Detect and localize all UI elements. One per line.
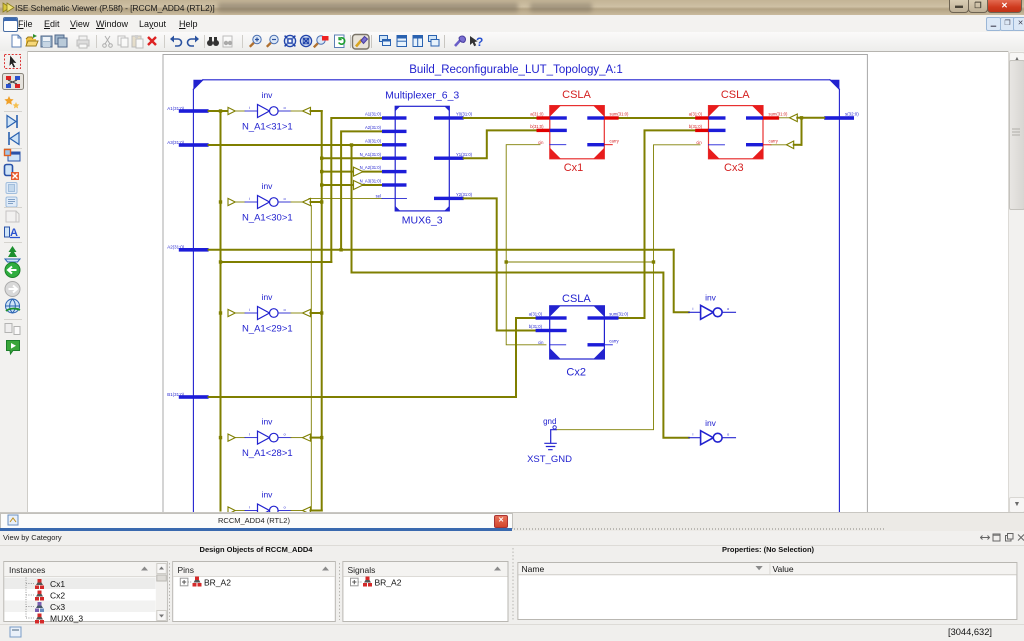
MUX pin Y0 (434, 112, 473, 120)
wire N_A2 tap (322, 171, 382, 173)
junction inv2 output (320, 200, 323, 203)
svg-text:sum(31:0): sum(31:0) (609, 312, 628, 317)
svg-text:a(31:0): a(31:0) (689, 112, 703, 117)
Cx1 pin carry (587, 138, 619, 146)
binoculars doc greyed (223, 36, 232, 47)
Cx3 pin b (689, 124, 726, 132)
svg-text:Cx1: Cx1 (564, 162, 584, 174)
zoom full (284, 35, 295, 46)
Cx3 pin sum (746, 112, 788, 120)
stars (4, 96, 19, 109)
Cx1 pin sum (587, 112, 629, 120)
svg-text:o: o (727, 306, 730, 311)
Cx3 pin a (689, 112, 726, 120)
svg-text:cin: cin (696, 140, 702, 145)
port A1(31:0) (167, 106, 208, 113)
svg-text:inv: inv (262, 90, 274, 100)
junction inv4 input (219, 436, 222, 439)
svg-text:MUX6_3: MUX6_3 (50, 614, 83, 624)
inverter right top (689, 293, 736, 320)
svg-text:i: i (249, 505, 250, 510)
svg-text:BR_A2: BR_A2 (375, 578, 402, 588)
grey fwd (5, 282, 20, 297)
Cx2 pin carry (588, 338, 620, 346)
gnd symbol XST_GND (527, 417, 572, 465)
zoom flag (314, 36, 329, 48)
wire Cx1 sum to Cx3 a (619, 117, 695, 119)
buffer arrow N_A3 (354, 181, 364, 190)
wire A3 branch to lower right inverter (352, 145, 689, 438)
svg-text:s(32:0): s(32:0) (845, 111, 859, 116)
svg-text:sel: sel (376, 194, 381, 199)
wire Cx2 sum to Cx3 b (619, 130, 696, 318)
svg-text:i: i (249, 432, 250, 437)
dotted separators (170, 548, 514, 620)
svg-text:A2(31:0): A2(31:0) (167, 245, 184, 250)
pale doc 2 (6, 197, 17, 207)
svg-text:?: ? (476, 35, 483, 49)
svg-text:N_A1<30>1: N_A1<30>1 (242, 213, 293, 224)
junction A2 riser (339, 248, 342, 251)
svg-text:B1(31:0): B1(31:0) (167, 392, 184, 397)
svg-text:sum(31:0): sum(31:0) (769, 112, 788, 117)
tree icon (5, 246, 20, 262)
redo (188, 36, 200, 47)
undo (170, 36, 182, 47)
svg-text:N_A1<31>1: N_A1<31>1 (242, 122, 293, 133)
svg-text:i: i (249, 105, 250, 110)
wire carry up link (801, 118, 803, 145)
svg-text:Pins: Pins (178, 565, 195, 575)
wire sel thin (309, 197, 382, 199)
greyed doc (6, 211, 19, 222)
port A3(31:0) (167, 140, 208, 147)
MUX pin sel (376, 194, 407, 199)
svg-text:i: i (249, 307, 250, 312)
pale doc 1 (6, 183, 17, 194)
Cx1 pin cin (538, 140, 566, 145)
svg-text:CSLA: CSLA (562, 89, 591, 101)
Cx2 pin cin (538, 340, 566, 345)
svg-text:A1(31:0): A1(31:0) (167, 106, 184, 111)
delete red X (148, 37, 156, 45)
block Build_Reconfigurable_LUT_Topology_A:1 (193, 80, 839, 512)
svg-text:o: o (284, 105, 287, 110)
svg-text:N_A3(31:0): N_A3(31:0) (360, 179, 382, 184)
wire N_A1 vertical (321, 111, 323, 511)
wire N_A1 tap (322, 157, 382, 159)
wire A2 branch to upper right inverter (674, 250, 689, 312)
pressed tool button (353, 35, 370, 50)
win tile v (413, 36, 423, 47)
svg-text:XST_GND: XST_GND (527, 454, 572, 465)
svg-text:i: i (693, 431, 694, 436)
MUX pin A1 (365, 112, 407, 120)
svg-text:N_A2(31:0): N_A2(31:0) (360, 165, 382, 170)
D + red X (5, 165, 20, 181)
Pins panel (173, 562, 336, 622)
inverter right bottom (689, 418, 736, 445)
win tile h (397, 36, 407, 47)
Signals panel (343, 562, 508, 622)
svg-text:A2(31:0): A2(31:0) (365, 125, 382, 130)
window + orange (5, 150, 21, 162)
multiplexer MUX6_3 (395, 106, 449, 211)
copy (greyed) (118, 36, 128, 47)
svg-text:b(31:0): b(31:0) (689, 124, 703, 129)
inverter N_A1_30 (228, 181, 322, 224)
svg-text:cin: cin (538, 340, 544, 345)
svg-text:Y1(31:0): Y1(31:0) (456, 152, 473, 157)
port s(32:0) (824, 111, 859, 119)
MUX pin Y1 (434, 152, 473, 160)
print (greyed) (77, 36, 89, 48)
wire sel vertical thin (310, 206, 312, 511)
wire A2 riser (341, 131, 382, 249)
green refresh doc (335, 35, 345, 48)
wire A2 row (209, 249, 674, 251)
select arrow (5, 55, 21, 69)
wire N_A3 tap (322, 184, 382, 186)
MUX pin A3 (365, 138, 407, 146)
svg-text:b(31:0): b(31:0) (530, 124, 544, 129)
pressed netlist button (3, 74, 24, 90)
wire B1 row to Cx2 a (209, 318, 536, 397)
svg-text:carry: carry (610, 138, 620, 143)
MUX pin N_A3 (360, 179, 407, 187)
svg-text:inv: inv (705, 293, 717, 303)
CSLA Cx3 (709, 106, 764, 159)
Cx3 carry out arrow (771, 141, 802, 149)
svg-text:o: o (727, 431, 730, 436)
zoom out (267, 35, 278, 47)
svg-text:Name: Name (522, 564, 545, 574)
svg-text:Instances: Instances (9, 565, 45, 575)
Cx3 pin cin (696, 140, 724, 145)
svg-text:gnd: gnd (543, 417, 556, 426)
svg-text:N_A1(31:0): N_A1(31:0) (360, 152, 382, 157)
junction A3 branch (350, 143, 353, 146)
canvas (28, 51, 1008, 513)
MUX pin N_A1 (360, 152, 407, 160)
junction sum-carry output node (800, 116, 803, 119)
help arrow (470, 35, 483, 49)
svg-text:inv: inv (262, 490, 274, 500)
svg-text:i: i (249, 196, 250, 201)
svg-text:sum(31:0): sum(31:0) (610, 112, 629, 117)
svg-text:Cx3: Cx3 (724, 162, 744, 174)
MUX pin A2 (365, 125, 407, 133)
CSLA Cx2 (550, 306, 605, 359)
Instances panel (4, 562, 168, 624)
Cx2 pin sum (588, 312, 629, 320)
win overlap (429, 36, 440, 47)
MUX pin N_A2 (360, 165, 407, 173)
junction A1 port tap (219, 109, 222, 112)
play left (9, 132, 19, 145)
svg-text:carry: carry (769, 138, 779, 143)
Cx2 pin a (529, 312, 567, 320)
globe (6, 299, 21, 313)
wire cin net thin (506, 145, 700, 430)
save all (55, 35, 67, 47)
svg-text:Cx2: Cx2 (566, 366, 586, 378)
A icon (5, 227, 21, 239)
wrench (455, 36, 465, 46)
green back (5, 263, 20, 278)
svg-text:b(31:0): b(31:0) (529, 324, 543, 329)
svg-text:Signals: Signals (348, 565, 376, 575)
wire A1 feed vertical (220, 111, 222, 511)
junction N_A1 pin tap (320, 157, 323, 160)
svg-text:N_A1<28>1: N_A1<28>1 (242, 448, 293, 459)
svg-text:cin: cin (538, 140, 544, 145)
inverter N_A1_28 (228, 417, 322, 460)
svg-text:inv: inv (262, 292, 274, 302)
junction inv2 input (219, 200, 222, 203)
svg-text:inv: inv (262, 417, 274, 427)
svg-text:A3(31:0): A3(31:0) (365, 138, 382, 143)
win cascade (380, 36, 391, 46)
junction N_A3 pin tap (320, 183, 323, 186)
svg-text:inv: inv (262, 181, 274, 191)
junction cin net left (505, 260, 508, 263)
inverter N_A1_31 (228, 90, 322, 133)
svg-text:BR_A2: BR_A2 (204, 578, 231, 588)
inverter N_A1_29 (228, 292, 322, 335)
tab strip (0, 512, 1024, 532)
page border (163, 55, 867, 513)
svg-text:carry: carry (609, 338, 619, 343)
svg-text:o: o (284, 196, 287, 201)
zoom in (250, 35, 261, 47)
svg-text:A3(31:0): A3(31:0) (167, 140, 184, 145)
svg-text:Value: Value (773, 564, 794, 574)
buffer arrow N_A2 (354, 167, 364, 176)
green flag (7, 341, 20, 355)
svg-text:o: o (284, 432, 287, 437)
window chrome (0, 0, 1024, 16)
svg-text:Build_Reconfigurable_LUT_Topol: Build_Reconfigurable_LUT_Topology_A:1 (409, 64, 623, 76)
junction A1 link row (219, 260, 222, 263)
wire A1 link row (221, 261, 332, 263)
zoom box (300, 35, 311, 46)
port B1(31:0) (167, 392, 208, 399)
junction cin net right (652, 260, 655, 263)
inverter N_A1_27 clipped (228, 490, 322, 517)
Cx2 pin b (529, 324, 567, 332)
open folder (26, 34, 38, 46)
Cx3 sum out arrow (779, 114, 824, 122)
svg-text:o: o (284, 307, 287, 312)
CSLA Cx1 (550, 106, 605, 159)
svg-text:a(31:0): a(31:0) (530, 112, 544, 117)
wire A1 riser (331, 118, 382, 262)
svg-text:CSLA: CSLA (721, 89, 750, 101)
svg-text:inv: inv (705, 418, 717, 428)
svg-text:Y2(31:0): Y2(31:0) (456, 192, 473, 197)
wire A3 row (209, 144, 382, 146)
Properties panel (518, 563, 1017, 620)
cut (greyed) (103, 36, 113, 47)
paste (greyed) (132, 35, 143, 48)
port A2(31:0) (167, 245, 208, 252)
save (41, 36, 52, 47)
wire Y1 to Cx1 b (464, 130, 537, 158)
binoculars (207, 37, 219, 46)
junction inv3 output (320, 311, 323, 314)
svg-text:Cx3: Cx3 (50, 602, 65, 612)
svg-text:Y0(31:0): Y0(31:0) (456, 112, 473, 117)
junction N_A2 pin tap (320, 170, 323, 173)
svg-text:i: i (693, 306, 694, 311)
wire Y2 to Cx2 b (464, 198, 536, 330)
svg-text:MUX6_3: MUX6_3 (402, 215, 443, 227)
wire A1 row (209, 110, 228, 112)
svg-text:o: o (284, 505, 287, 510)
svg-text:Cx2: Cx2 (50, 591, 65, 601)
junction inv3 input (219, 311, 222, 314)
two squares (5, 324, 20, 335)
new doc (12, 35, 21, 47)
svg-text:A1(31:0): A1(31:0) (365, 112, 382, 117)
svg-text:Cx1: Cx1 (50, 579, 65, 589)
junction inv4 output (320, 436, 323, 439)
Cx3 pin carry (746, 138, 779, 146)
play right (7, 115, 17, 128)
Cx1 pin a (530, 112, 567, 120)
wire Y0 to Cx1 a (464, 117, 537, 119)
svg-text:N_A1<29>1: N_A1<29>1 (242, 324, 293, 335)
svg-text:CSLA: CSLA (562, 293, 591, 305)
MUX pin Y2 (434, 192, 473, 200)
svg-text:a(31:0): a(31:0) (529, 312, 543, 317)
svg-text:Multiplexer_6_3: Multiplexer_6_3 (385, 90, 459, 102)
Cx1 pin b (530, 124, 567, 132)
